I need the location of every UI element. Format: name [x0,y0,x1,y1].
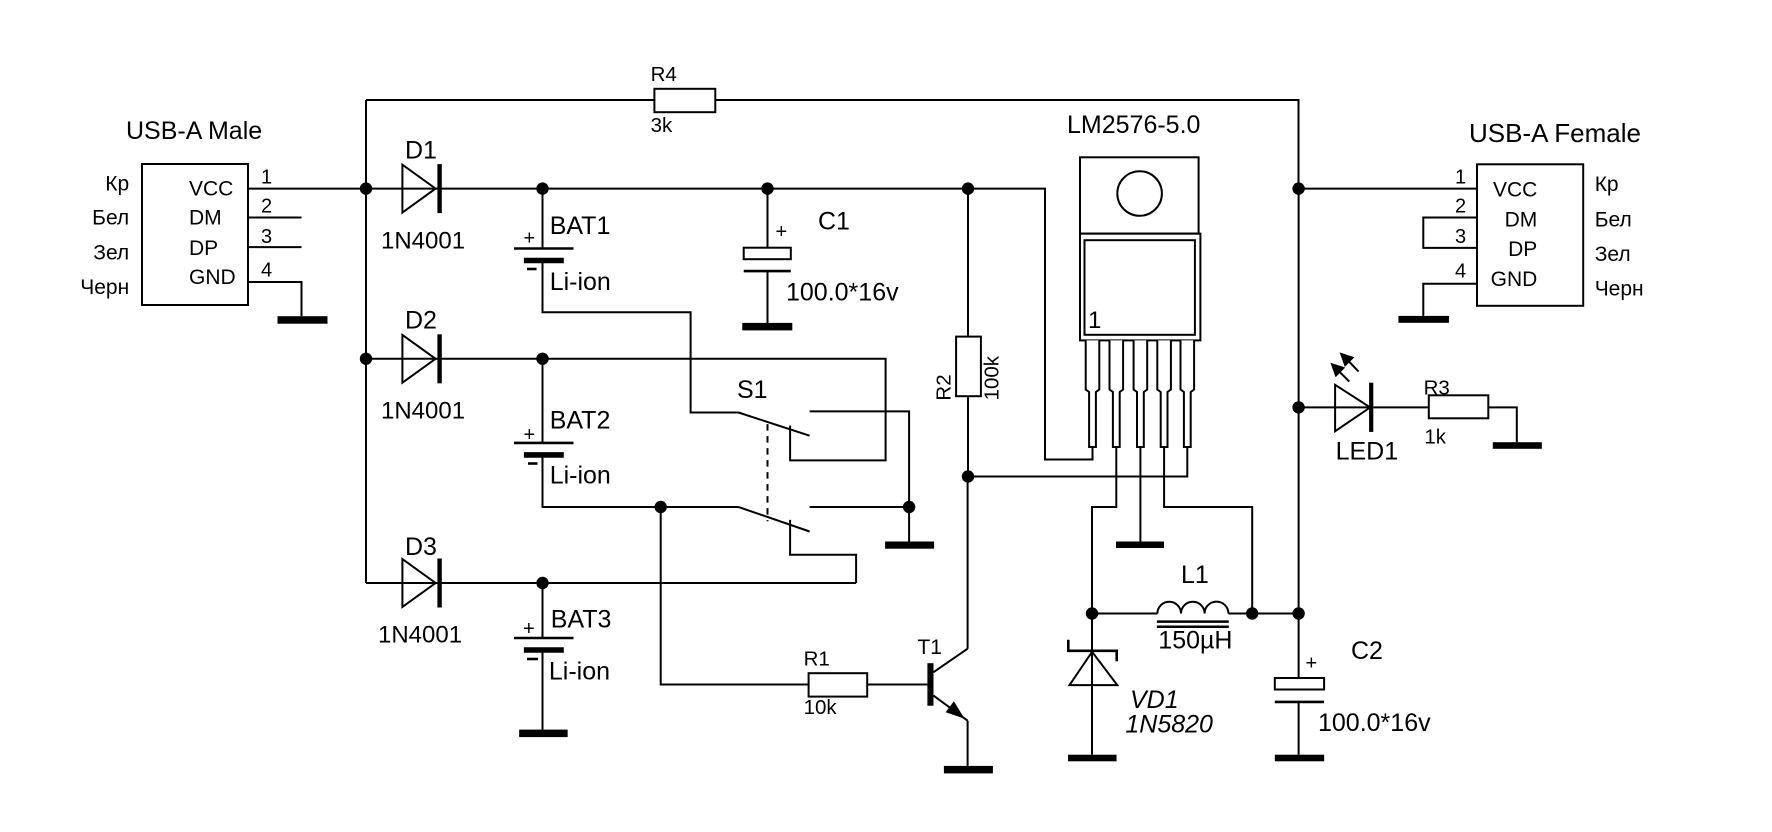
svg-text:1N4001: 1N4001 [381,398,465,425]
svg-text:D2: D2 [405,307,437,335]
svg-text:BAT3: BAT3 [551,606,612,634]
pin number 1 male [261,167,272,189]
battery BAT1 [514,249,574,261]
svg-text:100k: 100k [980,355,1003,400]
svg-text:USB-A Female: USB-A Female [1469,118,1641,148]
wire T1 emitter diagonal [934,696,968,721]
inductor L1 windings [1157,602,1228,614]
ground BAT3 [519,730,568,738]
svg-text:C2: C2 [1351,637,1383,665]
ground S1 [885,542,934,549]
svg-text:+: + [524,424,536,446]
svg-text:+: + [1306,653,1318,675]
svg-text:D1: D1 [405,136,437,164]
pin number 4 female [1455,261,1466,283]
svg-text:100.0*16v: 100.0*16v [786,278,899,306]
resistor R1 [809,673,868,696]
wire VD1 cathode lead [1091,614,1093,686]
wire S1 to ground [908,507,910,542]
svg-text:4: 4 [1455,261,1466,283]
wire D3 cathode rail [442,582,856,584]
svg-text:L1: L1 [1181,561,1209,589]
svg-text:4: 4 [261,260,272,282]
svg-text:GND: GND [189,266,236,289]
svg-text:Кр: Кр [1595,173,1619,196]
wire S1 throw2 contact [810,506,910,508]
connector USB-A Male box [142,164,248,305]
label DP pin female [1508,238,1537,261]
wire male pin1 VCC to bus [248,188,366,190]
wire BAT3 negative lead [542,650,544,730]
wire R2 bottom lead [967,396,969,476]
label VD1 [1130,686,1179,714]
wire S1 mechanical link dashed [767,424,769,521]
label + C1 [776,221,788,243]
node LED junction [1292,401,1304,413]
svg-text:BAT1: BAT1 [550,212,611,240]
label DM pin male [189,206,222,229]
svg-text:LM2576-5.0: LM2576-5.0 [1067,111,1200,139]
node R2 top junction [962,182,974,194]
label DM pin female [1505,208,1538,231]
wire output rail C2 vertical [1298,614,1300,679]
connector USB-A Female box [1477,164,1583,305]
wire BAT2 negative to switch pole2 [543,455,739,507]
resistor R2 [956,337,981,397]
wire S1 throw2 hook to D3 net [790,520,856,583]
wire female pin2 pin3 short [1423,218,1477,248]
svg-text:1: 1 [1455,167,1466,189]
ground R3 [1493,442,1542,449]
svg-text:1: 1 [261,167,272,189]
label LED1 [1336,437,1399,465]
svg-text:GND: GND [1491,268,1538,291]
wire R2 top lead [967,189,969,337]
node S1 ground junction [903,501,915,513]
wire C1 top lead [767,189,769,248]
minus mark BAT1 [527,268,537,271]
svg-text:DM: DM [1505,208,1538,231]
label VCC pin female [1493,179,1537,202]
node L1 left junction [1086,607,1098,619]
node R2-T1-ONOFF junction [962,470,974,482]
wire D2 net to S1 contact hook [442,359,886,461]
svg-text:S1: S1 [737,376,768,404]
node BAT3 top junction [536,577,548,589]
label R1 [804,648,830,671]
label Li-ion BAT2 [550,462,611,490]
svg-text:+: + [523,618,535,640]
svg-text:Зел: Зел [1595,243,1631,266]
label D1 [405,136,437,164]
wire C1 bottom lead [767,271,769,323]
svg-text:Бел: Бел [92,207,129,230]
pin 3 lead of U1 [1134,340,1148,447]
wire output to female pin1 [1299,188,1477,190]
wire L1 right lead [1228,613,1298,615]
label L1 [1181,561,1209,589]
wire S1 pole2 node to R1 [661,507,809,685]
svg-text:Черн: Черн [80,276,129,299]
label + BAT1 [524,228,536,250]
label + BAT2 [524,424,536,446]
svg-text:Кр: Кр [105,172,129,195]
wire top feedback rail right segment [715,100,1298,188]
label 100.0*16v value of C2 [1318,709,1431,737]
label USB-A Male title [126,117,262,145]
IC U1 LM2576 mounting hole [1117,171,1162,216]
led LED1 triangle [1335,385,1370,431]
node bus-D1 junction [360,182,372,194]
svg-text:DP: DP [1508,238,1537,261]
label R2 rotated [933,374,956,400]
svg-text:D3: D3 [405,533,437,561]
svg-text:R2: R2 [933,374,956,400]
resistor R4 [654,89,715,112]
svg-text:2: 2 [1455,195,1466,217]
svg-text:1N4001: 1N4001 [378,621,462,648]
label C1 [818,207,850,235]
label R3 [1424,377,1450,400]
label 1N4001 value of D2 [381,398,465,425]
wire R1 to T1 base [867,684,927,686]
label 1k value of R3 [1424,426,1446,449]
wire S1 pole1 blade [739,413,810,436]
label 3k value of R4 [651,114,673,137]
node BAT2 top junction [536,353,548,365]
svg-text:C1: C1 [818,207,850,235]
svg-text:DM: DM [189,206,222,229]
wire male pin2 stub [248,217,302,219]
svg-text:VCC: VCC [189,177,233,200]
svg-text:Бел: Бел [1595,208,1632,231]
label DP pin male [189,237,218,260]
node output VCC junction [1292,182,1304,194]
label + BAT3 [523,618,535,640]
label Li-ion BAT1 [550,268,611,296]
svg-text:3k: 3k [651,114,673,137]
wire D3 anode [366,582,442,584]
wire male pin3 stub [248,246,302,248]
label C2 [1351,637,1383,665]
svg-text:100.0*16v: 100.0*16v [1318,709,1431,737]
pin number 3 female [1455,226,1466,248]
arrow T1 emitter [946,701,965,718]
wire U1 pin2 output to L1 [1092,447,1116,614]
IC U1 LM2576 body outer [1080,234,1200,341]
wire U1 pin5 ONOFF to R2 node [968,447,1187,477]
wire T1 collector vertical [967,477,969,649]
battery BAT2 [514,443,574,455]
svg-text:1: 1 [1088,307,1101,334]
label GND pin female [1491,268,1538,291]
label wire color Zel female [1595,243,1631,266]
arrow LED1 light ray 1 [1340,352,1359,371]
ground C1 [742,323,792,331]
svg-text:1N4001: 1N4001 [381,227,465,254]
pin number 2 male [261,195,272,217]
capacitor C2 polarized [1275,678,1324,702]
IC U1 LM2576 body inner [1085,240,1195,335]
ground VD1 [1068,755,1117,762]
svg-text:Черн: Черн [1595,277,1644,300]
svg-text:USB-A Male: USB-A Male [126,117,262,145]
svg-text:Li-ion: Li-ion [549,658,610,686]
label 1N5820 value of VD1 [1125,710,1213,738]
pin number 3 male [261,226,272,248]
label T1 [917,636,942,659]
node C2 top junction [1292,607,1304,619]
label 10k value of R1 [804,696,838,719]
label 1N4001 value of D3 [378,621,462,648]
svg-text:+: + [524,228,536,250]
wire VCC rail D1 to LM2576 [442,189,1093,460]
label wire color Chern male [80,276,129,299]
ground C2 [1275,755,1324,762]
wire LED cathode to R3 [1373,406,1429,408]
label R4 [651,63,677,86]
label + C2 [1306,653,1318,675]
pin 2 lead of U1 [1110,340,1124,447]
IC U1 LM2576 tab [1080,157,1199,233]
label Li-ion BAT3 [549,658,610,686]
arrow LED1 light ray 2 [1330,363,1349,382]
svg-text:DP: DP [189,237,218,260]
node L1 right FB junction [1246,607,1258,619]
svg-text:1k: 1k [1424,426,1446,449]
svg-text:T1: T1 [917,636,942,659]
svg-text:3: 3 [1455,226,1466,248]
label 150uH value of L1 [1158,627,1232,655]
wire C2 bottom lead [1298,702,1300,755]
svg-text:+: + [776,221,788,243]
label LM2576-5.0 [1067,111,1200,139]
svg-text:BAT2: BAT2 [550,406,611,434]
capacitor C1 polarized [744,248,791,271]
wire LED anode lead [1299,406,1370,408]
diode VD1 triangle [1070,652,1118,685]
node C1 top junction [761,182,773,194]
label 100.0*16v value of C1 [786,278,899,306]
pin number 4 male [261,260,272,282]
label BAT1 [550,212,611,240]
svg-text:R1: R1 [804,648,830,671]
wire BAT2 positive lead [542,359,544,443]
svg-text:150µH: 150µH [1158,627,1232,655]
diode VD1 schottky cathode bar [1068,640,1116,662]
pin number 2 female [1455,195,1466,217]
svg-text:Зел: Зел [93,242,129,265]
label D3 [405,533,437,561]
minus mark BAT3 [527,658,538,661]
battery BAT3 [514,638,574,650]
svg-text:Li-ion: Li-ion [550,268,611,296]
inductor L1 core lines [1157,622,1229,627]
pin 5 lead of U1 [1181,340,1195,447]
svg-text:2: 2 [261,195,272,217]
svg-text:LED1: LED1 [1336,437,1399,465]
label wire color Kr female [1595,173,1619,196]
pin number 1 female [1455,167,1466,189]
pin number 1 LM2576 [1088,307,1101,334]
led LED1 cathode bar [1369,383,1373,432]
label 100k value of R2 rotated [980,355,1003,400]
label 1N4001 value of D1 [381,227,465,254]
wire S1 throw1 contact [810,411,910,506]
label wire color Zel male [93,242,129,265]
label wire color Kr male [105,172,129,195]
resistor R3 [1429,395,1489,418]
ground T1 emitter [944,766,993,774]
wire U1 pin4 feedback to L1 right [1164,447,1252,614]
label GND pin male [189,266,236,289]
diode D1 [402,164,441,213]
minus mark BAT2 [528,462,538,465]
node BAT1 top junction [536,182,548,194]
wire male pin4 to ground [248,282,302,316]
wire left input bus vertical [365,100,367,583]
label VCC pin male [189,177,233,200]
wire output rail vertical [1298,188,1300,614]
wire female pin4 to ground [1423,284,1477,316]
pin 1 lead of U1 [1086,340,1100,447]
svg-text:1N5820: 1N5820 [1125,710,1213,738]
label wire color Chern female [1595,277,1644,300]
wire BAT1 negative to switch pole1 [543,261,739,413]
wire T1 emitter vertical [967,721,969,766]
svg-text:R3: R3 [1424,377,1450,400]
svg-text:R4: R4 [651,63,677,86]
diode D2 [402,334,441,383]
svg-text:3: 3 [261,226,272,248]
svg-text:10k: 10k [804,696,838,719]
wire T1 collector diagonal [934,649,968,673]
transistor T1 base bar [927,663,933,706]
wire BAT1 positive lead [542,189,544,249]
wire D2 anode [366,358,442,360]
node S1 pole2 junction [655,501,667,513]
wire S1 pole2 blade [739,507,810,532]
label S1 [737,376,768,404]
wire L1 left lead [1092,613,1157,615]
label USB-A Female title [1469,118,1641,148]
ground U1 pin3 [1116,542,1164,549]
pin 4 lead of U1 [1157,340,1171,447]
wire VD1 anode lead [1091,685,1093,755]
wire U1 pin3 ground lead [1139,447,1141,542]
ground female GND pin [1398,316,1449,323]
ground male GND pin [278,316,328,324]
node bus-D2 junction [360,353,372,365]
wire BAT3 positive lead [542,583,544,638]
label BAT2 [550,406,611,434]
wire top feedback rail left segment [366,99,654,101]
label wire color Bel male [92,207,129,230]
wire D1 anode [366,188,442,190]
wire R3 to ground [1488,407,1517,442]
label D2 [405,307,437,335]
label BAT3 [551,606,612,634]
svg-text:VCC: VCC [1493,179,1537,202]
label wire color Bel female [1595,208,1632,231]
svg-text:Li-ion: Li-ion [550,462,611,490]
diode D3 [402,559,441,608]
